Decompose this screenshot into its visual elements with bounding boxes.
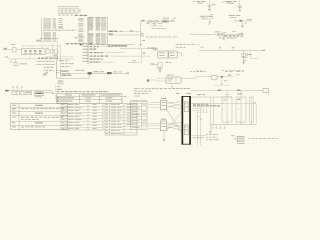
- transceiver T1 box: [161, 98, 167, 110]
- wire bus A bottom y41: [36, 38, 58, 41]
- wire J1 to relays y97: [191, 94, 233, 97]
- wire cluster2 y76.8: [196, 76, 212, 78]
- marks x228 y74.6: [228, 74, 231, 75]
- table T1 row2 text: [57, 100, 112, 101]
- legend table frame: [131, 100, 148, 129]
- wire stub JP1: [232, 137, 237, 141]
- resistor pack RP1 marks: [79, 9, 81, 12]
- table T1 side text: [123, 95, 126, 98]
- wire U10 output: [181, 77, 196, 79]
- connector J1 inner block lower: [184, 125, 188, 135]
- capacitor C20 and ground: [207, 1, 215, 12]
- wire vertical x52.6: [51, 45, 53, 54]
- faint label x200 y47: [201, 46, 204, 49]
- regulator VR1 cluster: [242, 51, 258, 64]
- relay K3 wire through: [250, 97, 252, 125]
- bus C net labels: [36, 61, 55, 71]
- notes block rows: [134, 88, 163, 96]
- connector J3 stub: [5, 90, 53, 92]
- wire vertical x141.4 y49-63: [141, 49, 145, 63]
- wire rail2 y50.6: [199, 49, 263, 52]
- table T2 frame: [61, 103, 103, 130]
- resistor R11: [50, 50, 53, 54]
- rail1 text run: [220, 36, 239, 39]
- drops below J1 bottom: [197, 113, 202, 146]
- IC U6: [169, 51, 177, 58]
- relay K1 body: [222, 97, 232, 122]
- corner tick x44 y73: [44, 73, 46, 74]
- table title long row: [57, 90, 109, 93]
- drop below U10: [171, 83, 173, 87]
- ground near bus C: [43, 72, 49, 76]
- capacitor C9: [10, 59, 27, 66]
- IC U5: [158, 51, 168, 58]
- zener D2 cluster: [229, 15, 253, 28]
- faint text row y70 right: [222, 69, 244, 72]
- relay K2 body: [236, 97, 246, 122]
- note text x141 y33-38: [141, 33, 178, 37]
- jumper JP1 box: [237, 136, 244, 141]
- capacitor C14: [21, 91, 24, 94]
- wire J1 bottom right y135.6: [191, 135, 208, 138]
- IC U9 dark module: [35, 92, 44, 97]
- wire horizontal y62.6: [128, 60, 141, 62]
- note right of U5: [176, 44, 200, 48]
- opto U10 label: [167, 74, 174, 77]
- power label x150 y64: [150, 63, 155, 66]
- bus D left labels: [82, 46, 87, 62]
- rail2 junction mark: [263, 50, 265, 51]
- label below JP1: [237, 142, 245, 145]
- left margin note rows x210: [210, 14, 213, 19]
- rail end mark: [127, 73, 129, 74]
- wire y64.6 to U7: [152, 63, 158, 65]
- resistor R10: [46, 48, 49, 53]
- test point label: [5, 56, 8, 59]
- capacitor C12: [12, 91, 15, 94]
- power connector J2: [61, 70, 69, 73]
- RC filter sketch sub labels: [146, 22, 162, 25]
- text above right of U10: [190, 70, 206, 73]
- bus A labels group1: [43, 19, 56, 30]
- relay K2 coil wire through: [237, 97, 241, 125]
- wire input left: [2, 48, 12, 50]
- wire rail1 y34.6: [191, 34, 244, 35]
- table T4 row6 text: [12, 125, 45, 128]
- ground below T2: [163, 131, 166, 142]
- IC U1 left pin labels: [78, 18, 83, 42]
- stub drops below bus: [211, 125, 225, 129]
- end connector box y90: [263, 88, 269, 92]
- filter FL1: [12, 48, 21, 52]
- label right of U7: [166, 61, 172, 64]
- IC U1 pin band upper strip3: [101, 17, 107, 30]
- table T4 row4 text: [12, 117, 63, 120]
- boundary vertical x55.8: [55, 84, 57, 100]
- wire crossing y103.6 right: [222, 102, 256, 103]
- vertical drop x221.8 with mark: [221, 78, 227, 85]
- table title small: [57, 88, 62, 91]
- capacitor bank labels C1-C5: [58, 5, 78, 8]
- connector J1 label: [176, 92, 191, 95]
- connector J1 body: [182, 96, 191, 145]
- relay K1 coil wire through: [223, 97, 227, 125]
- wire vertical x140.6 y30-45: [140, 21, 145, 45]
- table T3 frame: [105, 103, 137, 135]
- table T1 header text: [65, 94, 120, 97]
- IC U1 right edge vertical: [88, 17, 108, 45]
- relay bottom drops: [227, 104, 257, 125]
- wires y108-110: [191, 108, 203, 110]
- table T4 row1 header: [12, 104, 43, 107]
- supply node B text: [222, 1, 236, 4]
- bus D right net rows: [90, 46, 150, 62]
- table T1 frame: [56, 94, 122, 104]
- IC U1 pin band upper strip1: [89, 17, 94, 30]
- node label x11 y44: [11, 43, 15, 46]
- rail2 tick2: [232, 47, 235, 51]
- connector J1 inner block upper: [184, 102, 188, 112]
- IC U7: [158, 63, 162, 70]
- IC U8: [26, 91, 32, 94]
- table T4 row2 text: [12, 108, 64, 110]
- jumper JP1 label left: [231, 134, 234, 137]
- RC filter sketch wire: [141, 20, 176, 23]
- IC U1 bottom line with labels: [80, 44, 134, 46]
- wire bottom bus y124.6: [210, 123, 256, 126]
- wire net row to U5 y48.7: [120, 48, 158, 49]
- capacitor C13: [16, 91, 19, 94]
- bus D vertical x88: [87, 17, 90, 64]
- supply node A text: [193, 1, 205, 4]
- wire J2 right: [69, 72, 89, 74]
- dark label row y105.6: [193, 104, 220, 107]
- wires into U10: [147, 78, 166, 82]
- RC filter sketch wire2: [150, 25, 166, 29]
- labels right of bus C: [60, 59, 69, 62]
- relay K3 narrow body: [249, 97, 253, 122]
- label under battery: [57, 85, 61, 88]
- opto U10 body: [166, 77, 181, 83]
- table T2 cell text: [62, 104, 97, 129]
- crystal Y1: [53, 50, 57, 57]
- capacitor bank bodies C1-C5: [58, 9, 78, 14]
- wire y56.6 partial: [45, 55, 74, 57]
- relay driver U11 box: [212, 75, 218, 79]
- inductor L1: [218, 33, 222, 36]
- RC filter sketch labels: [163, 17, 176, 20]
- wires into T1: [148, 102, 161, 108]
- power rail labels: [94, 70, 105, 73]
- net labels column left of U1: [58, 18, 63, 28]
- corner text top right: [225, 1, 230, 3]
- rail1 right labels: [241, 33, 243, 37]
- ground x210 y131: [209, 131, 212, 133]
- ground stub x160.5 y65: [160, 65, 162, 68]
- bus A labels group2: [43, 32, 56, 40]
- module label row: [45, 91, 51, 94]
- rail1 labels above: [215, 31, 236, 33]
- wire vertical x60.3: [59, 44, 61, 78]
- table T4 row5 text: [12, 121, 43, 124]
- wire power rail y73.3: [92, 72, 127, 75]
- capacitor C21 and ground: [238, 1, 242, 12]
- dark net row y43.4: [66, 42, 92, 45]
- junction node dark 1: [88, 72, 92, 78]
- note text right of JP1: [249, 137, 278, 140]
- wire end node x52.5: [52, 91, 54, 94]
- label row y37.4 left of IC: [75, 36, 85, 39]
- diode D3: [223, 33, 243, 39]
- junction dot x221.8: [221, 76, 223, 78]
- dark rows x62 y63-68: [62, 63, 74, 67]
- wire U11 to junction: [217, 76, 234, 78]
- pullup stubs: [12, 87, 23, 91]
- table T3 cell text: [106, 104, 133, 134]
- relay feeds from y90.6: [227, 91, 241, 98]
- legend rows bottom right: [206, 134, 219, 140]
- IC U1 pin band lower strip2: [96, 33, 101, 45]
- rail2 tick1: [219, 47, 221, 51]
- reference node text cluster: [200, 16, 212, 25]
- transceiver T2 box: [161, 119, 167, 131]
- wire y85.8 short: [214, 85, 229, 87]
- tiny col x56 y70: [56, 70, 59, 73]
- text row y88.3 right part: [164, 87, 190, 90]
- battery BT1: [58, 81, 63, 84]
- paper background: [0, 0, 280, 147]
- wire above U3 with drops: [22, 46, 61, 49]
- bus A vertical x41.3: [40, 18, 43, 41]
- table T1 row1 text: [57, 97, 112, 98]
- table T4 row3 text: [12, 112, 43, 115]
- crossing wire fan T2 to J1: [167, 122, 182, 130]
- long net label row y30: [43, 29, 76, 32]
- wires into T2: [148, 123, 161, 129]
- IC U1 pin band lower strip3: [101, 33, 107, 45]
- faint label x196 y70: [196, 69, 204, 72]
- cluster2 labels above: [225, 71, 244, 75]
- IC U3 body: [22, 49, 46, 55]
- wire U6 output: [177, 52, 182, 56]
- vertical drops x210 x213: [210, 97, 213, 131]
- IC U1 clock out wires: [108, 30, 141, 35]
- ground below U7: [159, 68, 162, 73]
- long fan wires diagonal: [167, 109, 182, 134]
- bus C vertical x56.6: [55, 60, 58, 78]
- legend table cell text: [132, 101, 146, 127]
- IC U1 pin band upper strip2: [96, 17, 101, 30]
- wire U3 bottom drop: [29, 55, 31, 59]
- table T4 frame: [10, 104, 68, 130]
- dark label under J2: [62, 75, 72, 76]
- power rail labels right: [114, 71, 122, 74]
- wire y103.6 left part: [191, 102, 223, 104]
- short stubs below label row: [197, 107, 208, 113]
- relay bank label: [226, 93, 242, 94]
- crossing wire fan T1 to J1: [167, 102, 182, 110]
- junction node dark 2: [107, 72, 112, 74]
- wire bus C to power junction y78.2: [57, 77, 89, 80]
- long wire y90.6: [191, 90, 264, 91]
- wire long y58.8: [8, 58, 74, 60]
- dark label row y103.9: [193, 103, 208, 106]
- label above U5: [153, 48, 157, 51]
- capacitor bank value labels: [58, 15, 87, 16]
- IC U1 pin band lower strip1: [89, 33, 94, 45]
- wire vertical x57.6: [56, 43, 58, 60]
- label above wire: [75, 69, 84, 72]
